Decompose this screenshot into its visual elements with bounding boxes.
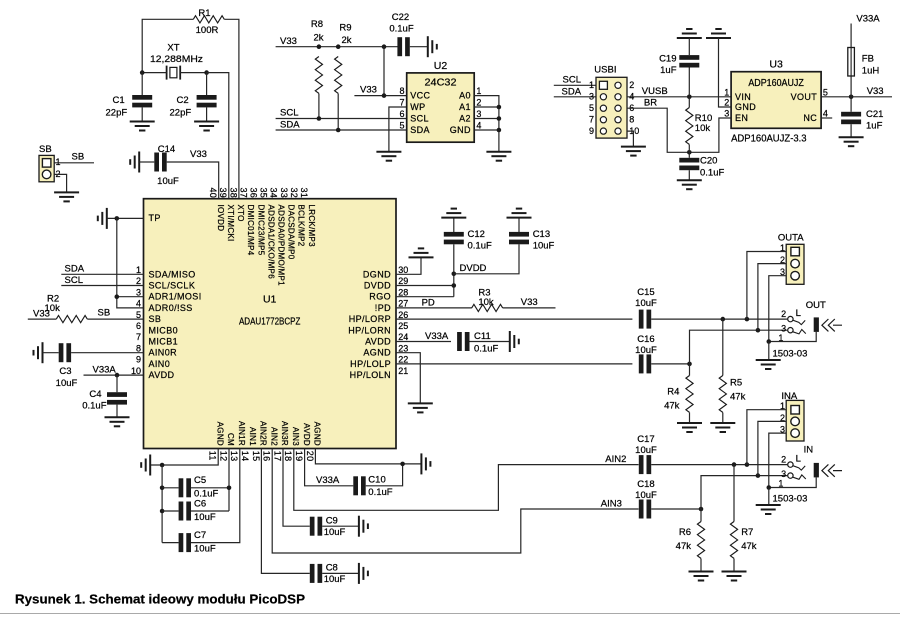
wire R10 to BR xyxy=(688,145,690,153)
svg-text:AIN0: AIN0 xyxy=(149,359,171,369)
svg-text:IN: IN xyxy=(804,444,814,455)
svg-text:5: 5 xyxy=(823,87,828,97)
svg-text:47k: 47k xyxy=(730,392,746,403)
svg-text:DACSDA/MP0: DACSDA/MP0 xyxy=(287,205,296,260)
wire DVDD pin 29 xyxy=(396,285,454,287)
svg-text:SDA: SDA xyxy=(562,86,582,97)
resistor R10 xyxy=(686,108,693,145)
svg-text:10uF: 10uF xyxy=(324,574,346,585)
wire CM pin 12 riser xyxy=(228,449,230,512)
resistor R8 xyxy=(315,57,322,94)
wire V33A through FB to VOUT xyxy=(850,24,852,97)
svg-text:40: 40 xyxy=(208,188,218,199)
node bus GND xyxy=(497,128,502,133)
svg-text:24: 24 xyxy=(398,332,408,342)
svg-text:0.1uF: 0.1uF xyxy=(389,23,413,34)
wire HP/LOLP to C16 xyxy=(396,363,632,365)
svg-text:12,288MHz: 12,288MHz xyxy=(150,54,203,65)
capacitor C4 xyxy=(107,392,127,397)
node DVDD/C13 xyxy=(452,272,457,277)
svg-text:10k: 10k xyxy=(478,297,494,308)
wire sleeve to ground xyxy=(768,488,770,506)
node ADR1/ADR0 xyxy=(115,294,120,299)
svg-text:35: 35 xyxy=(259,188,269,199)
svg-text:VCC: VCC xyxy=(410,91,430,101)
wire R6 to ground xyxy=(700,559,702,572)
wire R1 left to XT1 xyxy=(142,19,193,72)
wire USBI pin10 to ground xyxy=(627,131,633,147)
svg-text:2: 2 xyxy=(781,309,786,319)
wire C18 right xyxy=(651,508,701,510)
svg-text:!PD: !PD xyxy=(375,303,391,313)
wire U2 A0 bus xyxy=(474,96,499,152)
svg-text:36: 36 xyxy=(249,188,259,199)
wire rail to C7 xyxy=(162,542,179,544)
node C16/R4 xyxy=(687,362,692,367)
svg-text:PD: PD xyxy=(422,297,435,308)
node ring/OUTA2 xyxy=(756,328,761,333)
svg-text:ADP160AUJZ-3.3: ADP160AUJZ-3.3 xyxy=(731,134,807,145)
svg-text:V33: V33 xyxy=(521,297,538,308)
wire C12 to ground xyxy=(453,218,455,232)
svg-text:HP/LORP: HP/LORP xyxy=(349,314,391,324)
svg-text:17: 17 xyxy=(272,451,282,462)
svg-text:13: 13 xyxy=(229,451,239,462)
svg-text:A0: A0 xyxy=(459,91,471,101)
resistor R2 xyxy=(56,316,87,323)
svg-text:2: 2 xyxy=(629,80,634,90)
svg-text:16: 16 xyxy=(262,451,272,462)
ground SB xyxy=(54,192,79,201)
svg-text:Rysunek 1. Schemat ideowy modu: Rysunek 1. Schemat ideowy modułu PicoDSP xyxy=(15,592,305,607)
svg-text:SDA/MISO: SDA/MISO xyxy=(149,269,196,279)
svg-text:2: 2 xyxy=(781,455,786,465)
svg-text:3: 3 xyxy=(589,92,594,102)
capacitor C21 xyxy=(841,112,861,117)
svg-text:22pF: 22pF xyxy=(106,107,128,118)
svg-text:AIN2R: AIN2R xyxy=(259,421,268,446)
svg-text:DVDD: DVDD xyxy=(460,263,487,274)
svg-text:AIN3: AIN3 xyxy=(291,427,300,446)
svg-text:ADP160AUJZ: ADP160AUJZ xyxy=(748,78,804,89)
capacitor C2 xyxy=(197,95,217,100)
svg-text:0.1uF: 0.1uF xyxy=(700,167,724,178)
svg-text:29: 29 xyxy=(398,276,408,286)
svg-text:A1: A1 xyxy=(459,102,471,112)
wire C11 to ground xyxy=(470,341,510,343)
svg-text:C3: C3 xyxy=(59,366,71,377)
wire R7 top xyxy=(733,465,735,522)
wire INA pin1 to tip net xyxy=(747,410,786,465)
capacitor C18 xyxy=(639,500,644,519)
wire HP/LORP to C15 xyxy=(396,318,632,320)
svg-text:AGND: AGND xyxy=(313,422,322,446)
wire R2 to SB pin 5 xyxy=(87,318,143,320)
wire net V33 top xyxy=(276,46,398,48)
node bus A2 xyxy=(497,116,502,121)
svg-text:39: 39 xyxy=(218,188,228,199)
wire C1 to ground xyxy=(141,107,143,121)
capacitor C20 xyxy=(679,158,699,163)
svg-text:AVDD: AVDD xyxy=(365,337,391,347)
wire AIN3R pin 17 to C9 xyxy=(283,449,310,527)
ground OUT xyxy=(756,360,781,369)
svg-text:1503-03: 1503-03 xyxy=(773,493,808,504)
wire R7 to ground xyxy=(733,559,735,572)
OUT plug symbol xyxy=(822,319,842,331)
svg-text:25: 25 xyxy=(398,321,408,331)
svg-text:4: 4 xyxy=(136,299,141,309)
wire C4 to ground xyxy=(116,405,118,418)
wire AVDD pin24 V33A xyxy=(396,341,451,343)
node AGND/C5 xyxy=(160,486,165,491)
svg-text:47k: 47k xyxy=(741,541,757,552)
ground C4 xyxy=(105,417,130,426)
capacitor C1 xyxy=(132,95,152,100)
svg-text:WP: WP xyxy=(410,102,425,112)
svg-text:2: 2 xyxy=(476,98,481,108)
wire C14 to IOVDD pin 40 xyxy=(167,162,219,199)
wire ground to C19 xyxy=(688,38,690,55)
svg-text:3: 3 xyxy=(724,109,729,119)
svg-text:8: 8 xyxy=(136,343,141,353)
ground C20 xyxy=(677,180,702,189)
node R9 top xyxy=(336,44,341,49)
node bus A1 xyxy=(497,105,502,110)
svg-text:C20: C20 xyxy=(700,156,717,167)
ground AGND (sideways) xyxy=(141,455,150,476)
wire net VUSB to U3 VIN xyxy=(627,96,731,98)
wire net V33 to R2 xyxy=(28,318,57,320)
capacitor C6 xyxy=(179,502,184,521)
wire C10 to AGND line xyxy=(366,464,403,486)
capacitor C10 xyxy=(353,476,358,495)
svg-text:C13: C13 xyxy=(533,229,550,240)
svg-text:VUSB: VUSB xyxy=(642,86,668,97)
wire pin3 ADR1 xyxy=(117,296,144,298)
svg-text:XT: XT xyxy=(167,42,179,53)
wire XT1 to C1 xyxy=(141,73,143,96)
svg-text:R7: R7 xyxy=(741,527,753,538)
wire C22 to ground xyxy=(410,46,428,48)
svg-text:DMIC01/MP4: DMIC01/MP4 xyxy=(246,205,255,256)
wire TP to ADR0 pin 4 xyxy=(117,218,144,308)
svg-text:10uF: 10uF xyxy=(533,241,555,252)
connector INA xyxy=(786,400,804,441)
wire C9 to ground xyxy=(322,525,359,527)
svg-text:C6: C6 xyxy=(194,498,206,509)
svg-text:5: 5 xyxy=(589,103,594,113)
svg-text:USBI: USBI xyxy=(594,65,616,76)
svg-text:SDA: SDA xyxy=(280,119,300,130)
svg-text:RGO: RGO xyxy=(369,292,391,302)
capacitor C9 xyxy=(310,517,315,536)
wire U2 GND xyxy=(474,129,499,131)
node XT1 xyxy=(140,70,145,75)
wire C6 to CM riser xyxy=(191,510,229,512)
wire ring wire xyxy=(758,329,787,331)
svg-text:28: 28 xyxy=(398,287,408,297)
node VUSB/C19/R10 xyxy=(687,95,692,100)
resistor R7 xyxy=(730,522,737,559)
svg-text:XTI/MCKI: XTI/MCKI xyxy=(226,205,235,242)
wire C16 to OUT ring xyxy=(690,330,758,364)
ground DGND (inverted) xyxy=(409,248,434,257)
ground C9 (sideways) xyxy=(359,516,368,537)
wire V33A to C4 xyxy=(116,375,118,392)
svg-text:14: 14 xyxy=(240,451,250,462)
wire R8 to SCL xyxy=(318,94,320,119)
svg-text:11: 11 xyxy=(208,451,218,461)
svg-text:AVDD: AVDD xyxy=(149,370,175,380)
svg-text:SCL: SCL xyxy=(410,114,429,124)
svg-text:C1: C1 xyxy=(113,95,125,106)
node AGND/C10 xyxy=(400,462,405,467)
node sleeve/OUTA3 xyxy=(767,339,772,344)
svg-text:CM: CM xyxy=(226,433,235,446)
svg-text:1uF: 1uF xyxy=(660,65,677,76)
svg-text:SCL: SCL xyxy=(65,275,83,286)
wire R4 to ground xyxy=(689,413,691,424)
wire C2 to ground xyxy=(206,107,208,121)
ground R6 xyxy=(689,572,714,581)
ground TP (sideways) xyxy=(98,208,107,229)
svg-text:EN: EN xyxy=(735,113,748,123)
crystal XT 12,288MHz xyxy=(167,66,181,80)
wire R5 top xyxy=(722,319,724,375)
wire U3 NC stub xyxy=(821,117,832,119)
svg-text:V33: V33 xyxy=(190,149,207,160)
wire DVDD to C13 xyxy=(454,244,519,273)
ground pin23 xyxy=(408,403,433,412)
svg-text:R6: R6 xyxy=(679,527,691,538)
svg-text:V33A: V33A xyxy=(93,364,117,375)
connector SB xyxy=(39,155,54,181)
svg-text:R1: R1 xyxy=(198,8,210,19)
svg-text:GND: GND xyxy=(450,125,471,135)
svg-text:10k: 10k xyxy=(45,303,61,314)
svg-text:10uF: 10uF xyxy=(56,378,78,389)
svg-text:31: 31 xyxy=(299,188,309,199)
svg-text:FB: FB xyxy=(862,54,874,65)
node DVDD/RGO xyxy=(452,283,457,288)
svg-text:C5: C5 xyxy=(194,475,206,486)
wire net V33 to U2 VCC xyxy=(354,95,406,97)
wire XT2 to XTI pin 39 xyxy=(207,73,229,199)
svg-text:3: 3 xyxy=(476,109,481,119)
capacitor C5 xyxy=(179,478,184,497)
wire AGND pin 23 xyxy=(396,353,420,404)
ground U2 WP xyxy=(376,152,401,161)
svg-text:SCL/SCLK: SCL/SCLK xyxy=(149,281,196,291)
ground U3 GND top (inverted) xyxy=(706,29,731,38)
svg-text:DVDD: DVDD xyxy=(364,281,391,291)
svg-text:15: 15 xyxy=(251,451,261,462)
svg-text:V33: V33 xyxy=(867,86,884,97)
svg-text:38: 38 xyxy=(228,188,238,199)
node XT2 xyxy=(204,70,209,75)
svg-text:ADSDA0/PDMO/MP1: ADSDA0/PDMO/MP1 xyxy=(277,205,286,287)
wire OUTA pin1 to tip net xyxy=(747,252,786,320)
svg-text:8: 8 xyxy=(629,115,634,125)
wire AIN3 to IN ring xyxy=(701,476,787,509)
ground R7 xyxy=(722,572,747,581)
svg-text:18: 18 xyxy=(283,451,293,462)
svg-text:C14: C14 xyxy=(158,144,175,155)
svg-text:10uF: 10uF xyxy=(635,298,657,309)
svg-text:R4: R4 xyxy=(667,386,679,397)
svg-text:5: 5 xyxy=(399,121,404,131)
wire V33 riser xyxy=(383,47,385,96)
ground C1 xyxy=(130,122,155,131)
svg-text:23: 23 xyxy=(398,343,408,353)
IC U3 ADP160AUJZ regulator xyxy=(731,72,821,129)
wire R3 to V33 xyxy=(503,307,556,309)
svg-text:AIN1: AIN1 xyxy=(248,427,257,446)
wire SB pin2 to ground xyxy=(54,174,66,192)
wire ground to C14 xyxy=(139,161,154,163)
svg-text:C18: C18 xyxy=(637,479,654,490)
wire net SCL to U1 pin2 xyxy=(61,285,143,287)
wire AIN3 pin18 to net AIN2 xyxy=(294,449,639,511)
svg-text:ADR0/!SS: ADR0/!SS xyxy=(149,303,193,313)
resistor R6 xyxy=(697,522,704,559)
svg-text:3: 3 xyxy=(136,287,141,297)
svg-text:100R: 100R xyxy=(196,25,219,36)
svg-text:C11: C11 xyxy=(474,331,491,342)
wire DVDD riser xyxy=(453,244,455,296)
svg-text:AIN2: AIN2 xyxy=(605,454,626,465)
svg-text:22: 22 xyxy=(398,355,408,365)
capacitor C13 xyxy=(509,232,529,237)
svg-text:7: 7 xyxy=(136,332,141,342)
svg-text:ADAU1772BCPZ: ADAU1772BCPZ xyxy=(239,316,301,328)
svg-text:VOUT: VOUT xyxy=(791,92,818,102)
svg-text:R9: R9 xyxy=(339,23,351,34)
node R8 top xyxy=(317,44,322,49)
svg-text:V33A: V33A xyxy=(425,331,449,342)
wire C5 to CM xyxy=(191,487,229,489)
svg-text:1: 1 xyxy=(589,80,594,90)
svg-text:33: 33 xyxy=(279,188,289,199)
wire C13 to ground xyxy=(518,218,520,232)
svg-text:C10: C10 xyxy=(368,474,385,485)
svg-text:C19: C19 xyxy=(659,53,676,64)
wire sleeve to ground xyxy=(768,342,770,361)
svg-text:1: 1 xyxy=(136,265,141,275)
svg-text:0.1uF: 0.1uF xyxy=(474,344,498,355)
wire U2 A2 xyxy=(474,118,499,120)
svg-text:MICB1: MICB1 xyxy=(149,337,179,347)
node AGND rail xyxy=(160,463,165,468)
svg-text:1: 1 xyxy=(724,87,729,97)
capacitor C22 xyxy=(397,37,402,56)
svg-text:6: 6 xyxy=(399,109,404,119)
svg-text:SB: SB xyxy=(149,314,162,324)
svg-text:0.1uF: 0.1uF xyxy=(368,487,392,498)
svg-text:3: 3 xyxy=(781,323,786,333)
svg-text:9: 9 xyxy=(136,355,141,365)
wire AIN2R pin 15 to C8 xyxy=(261,449,309,574)
wire ground to U3 GND xyxy=(719,38,732,107)
wire DGND pin 30 xyxy=(396,257,421,274)
svg-text:DGND: DGND xyxy=(363,269,391,279)
wire R5 to ground xyxy=(722,413,724,424)
wire INA pin2 to ring net xyxy=(758,421,786,475)
svg-text:10: 10 xyxy=(131,366,141,376)
svg-text:2: 2 xyxy=(136,276,141,286)
svg-text:4: 4 xyxy=(476,121,481,131)
wire net V33 from VOUT xyxy=(821,96,892,98)
svg-text:C4: C4 xyxy=(89,389,101,400)
svg-text:U1: U1 xyxy=(263,294,277,306)
wire net V33A to AVDD pin 10 xyxy=(84,374,144,376)
svg-text:AVDD: AVDD xyxy=(302,423,311,446)
node C15/R5 xyxy=(721,317,726,322)
svg-text:10uF: 10uF xyxy=(194,512,216,523)
svg-text:AIN2: AIN2 xyxy=(269,427,278,446)
wire INA pin3 to sleeve net xyxy=(769,433,786,487)
ground C19 top (inverted) xyxy=(677,29,702,38)
svg-text:SB: SB xyxy=(39,144,52,155)
capacitor C17 xyxy=(639,455,644,474)
ground C2 xyxy=(194,122,219,131)
wire TP xyxy=(107,217,144,219)
svg-text:5: 5 xyxy=(136,310,141,320)
svg-text:10uF: 10uF xyxy=(157,176,179,187)
svg-text:C12: C12 xyxy=(468,229,485,240)
wire net SDA to USBI xyxy=(554,96,596,98)
wire AIN2 pin16 to net AIN3 xyxy=(272,449,638,554)
wire rail to C6 xyxy=(162,510,179,512)
svg-text:47k: 47k xyxy=(664,401,680,412)
svg-text:V33A: V33A xyxy=(316,475,340,486)
IC U1 ADAU1772BCPZ xyxy=(144,199,397,449)
svg-text:22pF: 22pF xyxy=(170,107,192,118)
capacitor C12 xyxy=(444,232,464,237)
svg-text:LRCK/MP3: LRCK/MP3 xyxy=(307,205,316,248)
capacitor C3 xyxy=(59,343,64,362)
wire net SB from connector xyxy=(54,162,94,164)
svg-text:R8: R8 xyxy=(311,19,323,30)
resistor R5 xyxy=(719,376,726,413)
node AGND/C6 xyxy=(160,509,165,514)
svg-text:AGND: AGND xyxy=(215,422,224,446)
node V33A/C4 xyxy=(115,373,120,378)
svg-text:SDA: SDA xyxy=(65,264,85,275)
resistor R4 xyxy=(686,376,693,413)
ground C12 (inverted) xyxy=(441,209,466,218)
ground C22 (sideways) xyxy=(428,36,437,57)
node C15/OUTA1 xyxy=(745,317,750,322)
svg-text:OUT: OUT xyxy=(806,300,826,311)
wire net BR to U3 EN xyxy=(627,108,731,152)
svg-text:L: L xyxy=(796,308,801,319)
wire net SDA to U1 pin1 xyxy=(61,273,143,275)
svg-text:A2: A2 xyxy=(459,114,471,124)
svg-text:C7: C7 xyxy=(194,530,206,541)
wire R9 to SDA xyxy=(337,94,339,131)
svg-text:47k: 47k xyxy=(676,541,692,552)
svg-text:1: 1 xyxy=(476,86,481,96)
resistor R3 xyxy=(472,304,503,311)
wire OUT sleeve wire xyxy=(769,332,816,342)
wire rail to C5 xyxy=(162,487,179,489)
svg-text:AIN1R: AIN1R xyxy=(237,421,246,446)
node CM/C5 xyxy=(227,486,232,491)
wire XT left xyxy=(142,72,166,74)
svg-text:GND: GND xyxy=(735,102,756,112)
